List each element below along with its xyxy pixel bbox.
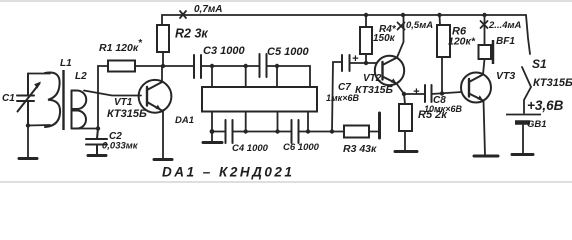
svg-text:C6 1000: C6 1000 (283, 142, 320, 153)
wire R3 right (369, 131, 378, 133)
capacitor C8 polar (425, 85, 432, 102)
wire BF1 top (484, 15, 486, 45)
svg-text:L2: L2 (75, 71, 87, 82)
node R6 bottom (440, 91, 444, 95)
svg-text:C1: C1 (2, 93, 15, 104)
measuring point X on rail (180, 11, 186, 18)
node b2 (244, 129, 248, 133)
wire S1 to battery (524, 87, 531, 113)
svg-text:КТ315Б: КТ315Б (107, 108, 147, 120)
pin b4 (307, 112, 309, 132)
node L2 bottom / C2 (96, 126, 100, 130)
node VT2 rail (401, 13, 405, 17)
node b1 (210, 129, 215, 134)
svg-text:R5 2к: R5 2к (418, 109, 448, 121)
svg-text:0,033мк: 0,033мк (102, 141, 139, 152)
wire R6 bottom (441, 57, 443, 94)
node b4 (306, 129, 310, 133)
svg-text:2...4мА: 2...4мА (488, 20, 522, 31)
resistor R2 (157, 25, 169, 52)
wire VT1 collector (161, 66, 163, 82)
ground under VT1 emitter (154, 158, 172, 161)
wire R1 right to node (135, 65, 163, 67)
ferrite core (62, 70, 64, 130)
wire bottom left segment (212, 131, 226, 133)
svg-text:C7: C7 (338, 82, 351, 93)
svg-text:0,7мА: 0,7мА (194, 4, 223, 15)
wire C1 bottom to L1 bottom (28, 124, 50, 127)
node emitter VT2 (402, 92, 406, 96)
node R6 rail (437, 13, 441, 17)
node R4/base VT2 (364, 61, 368, 65)
node pin t1 (210, 64, 214, 68)
node b3 (275, 129, 279, 133)
svg-text:C3 1000: C3 1000 (203, 45, 245, 57)
wire R4 top (365, 15, 367, 27)
svg-text:0,5мА: 0,5мА (406, 20, 433, 31)
svg-text:R3 43к: R3 43к (343, 143, 377, 155)
transistor VT3 (461, 73, 491, 103)
capacitor C2 (86, 129, 107, 155)
IC DA1 (202, 87, 317, 112)
battery GB1 (506, 114, 541, 116)
switch S1 (526, 15, 530, 54)
scan border top (0, 0, 572, 2)
resistor R4 (360, 27, 372, 54)
svg-text:C5 1000: C5 1000 (267, 46, 309, 58)
wire R1 left down to L2 bottom node (98, 66, 108, 129)
node C1 bottom (26, 123, 30, 127)
wire C6 to R3 (299, 131, 345, 133)
wire R4 bottom (365, 54, 367, 63)
wire emitter to C8 (404, 93, 425, 95)
pin b3 (277, 112, 279, 132)
inductor L2 (72, 91, 87, 129)
svg-text:VT2: VT2 (363, 73, 382, 84)
capacitor C1 variable (17, 74, 40, 126)
capacitor C6 (292, 120, 299, 143)
ground under battery (512, 153, 533, 156)
capacitor C7 polar (342, 55, 350, 71)
node BF1 rail (482, 13, 486, 17)
svg-text:VT3: VT3 (496, 70, 515, 82)
pin t1 (211, 66, 213, 87)
wire VT1 emitter (162, 110, 164, 158)
ground under R5 (395, 150, 417, 153)
wire battery to ground (522, 125, 524, 153)
svg-text:VT1: VT1 (114, 97, 133, 108)
node pin t3 (275, 64, 279, 68)
wire R2 bottom to node (162, 52, 164, 66)
wire C5 to pin t4 (267, 66, 311, 87)
wire base VT1 (84, 91, 141, 96)
pin b1 (211, 112, 213, 132)
wire node to C3 (163, 65, 194, 67)
wire R5 bottom (404, 131, 406, 150)
node C7 drop (330, 129, 334, 133)
svg-text:150к: 150к (373, 33, 396, 44)
node R4 rail (364, 13, 368, 17)
svg-text:+: + (413, 86, 420, 98)
transistor VT2 (375, 56, 404, 85)
measuring point X collector VT2 (398, 23, 405, 30)
svg-text:120к*: 120к* (448, 36, 476, 48)
svg-text:R1 120к: R1 120к (99, 42, 139, 54)
svg-text:DA1 – К2НД021: DA1 – К2НД021 (162, 165, 294, 180)
svg-text:КТ315Б: КТ315Б (533, 77, 572, 89)
ground under C2 (88, 154, 106, 157)
node pin t2 (244, 64, 248, 68)
svg-text:DA1: DA1 (175, 115, 194, 126)
wire down to ground (27, 126, 29, 158)
wire C7 to base VT2 (350, 62, 377, 64)
capacitor C4 (226, 120, 233, 143)
measuring point X BF1 (481, 21, 488, 28)
wire VT3 emitter (484, 101, 486, 156)
resistor R3 (344, 126, 369, 138)
capacitor C3 (194, 55, 201, 78)
svg-text:S1: S1 (532, 57, 547, 71)
ground under pin b1 (211, 132, 213, 142)
headphone BF1 (479, 45, 492, 59)
transistor VT1 (139, 80, 172, 113)
pin t3 (276, 66, 278, 87)
resistor R5 (399, 104, 412, 131)
ground bar right of R3 (378, 113, 381, 138)
svg-text:КТ315Б: КТ315Б (355, 84, 394, 96)
wire VT2 emitter (397, 84, 405, 95)
svg-text:+3,6В: +3,6В (527, 98, 564, 113)
svg-text:BF1: BF1 (496, 36, 515, 47)
wire L2 bottom to node (72, 128, 99, 130)
ground under VT3 (474, 155, 498, 158)
svg-text:C4 1000: C4 1000 (232, 143, 269, 154)
resistor R6 (437, 25, 450, 57)
wire between C4 and C6 (233, 131, 292, 133)
inductor L1 (45, 73, 60, 128)
wire C7 drop (332, 62, 342, 132)
wire VT2 collector (397, 15, 404, 58)
wire R6 top (439, 15, 442, 25)
svg-text:GB1: GB1 (527, 119, 547, 130)
wire C8 to base VT3 (432, 92, 462, 94)
resistor R1 (108, 61, 135, 72)
node collector VT1 (161, 64, 165, 68)
svg-text:L1: L1 (60, 58, 72, 69)
wire VT3 collector (483, 59, 485, 75)
wire C3 to C5 (201, 65, 260, 67)
ground under C1 (19, 157, 37, 160)
pin b2 (245, 112, 247, 132)
pin t2 (245, 66, 247, 87)
wire top supply rail (162, 15, 526, 25)
capacitor C5 (260, 54, 267, 77)
svg-text:R2 3к: R2 3к (175, 27, 208, 41)
wire R5 top (404, 94, 405, 104)
scan border bottom (0, 181, 572, 183)
wire C1 top to L1 (28, 73, 50, 75)
